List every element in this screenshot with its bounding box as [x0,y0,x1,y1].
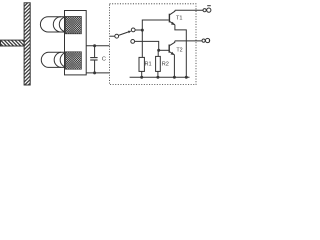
node B junction dot [157,49,160,52]
wire T1 emitter down and right to lower bus [175,25,186,77]
svg-text:T2: T2 [176,48,182,54]
node R1 rail dot [140,76,143,79]
svg-text:C: C [102,57,106,63]
node bottom junction [93,71,96,74]
wire R1 bottom lead [141,71,143,77]
capacitor C plates [90,57,97,59]
rotor vane vertical bar [0,3,114,85]
wire coil tap to box [86,45,109,47]
coil L2 turn arc 1 [54,52,61,67]
bottom rail [130,76,190,78]
node T1 emitter rail dot [185,76,188,79]
node tap junction [93,44,96,47]
transistor T2 emitter [169,52,174,55]
terminal output bottom symbol [206,38,210,42]
wire switch input stub [110,35,115,37]
transistor T1 emitter arrow [171,22,175,25]
wire T2 emitter to rail [173,55,175,77]
resistor R1 [139,57,144,71]
switch blade arrowhead [128,31,132,33]
core rectangle [65,11,87,75]
svg-text:R1: R1 [145,62,152,68]
wire capacitor bottom lead [94,60,96,73]
node T2 emitter rail dot [173,76,176,79]
dashed enclosure box [110,4,197,85]
terminal output bottom circle [202,39,205,42]
coil L2 winding body [41,52,81,67]
coil L1 turn arc 1 [53,17,61,32]
wire T2 collector to bottom terminal [175,40,202,42]
transistor T2 base bar [168,45,170,53]
node R2 rail dot [156,76,159,79]
wire capacitor top lead [94,46,96,58]
rotor vane horizontal arm [0,40,32,46]
wire switch to node A [135,29,142,31]
transistor T2 collector [169,41,175,46]
transistor T1 collector [169,10,175,15]
terminal circle input 2 [131,40,135,44]
svg-text:R2: R2 [162,62,169,68]
terminal output top symbol [207,6,211,13]
transistor T2 emitter arrow [171,52,175,55]
terminal output top circle [203,9,206,12]
wire node B to T2 base [159,49,169,51]
transistor T1 base bar [168,14,170,23]
transistor T1 emitter [169,21,175,24]
svg-text:T1: T1 [176,16,183,22]
wire R2 bottom lead [157,71,159,77]
wire T1 collector to top terminal [175,9,203,11]
node A junction dot [141,29,144,32]
wire terminal2 to node B [135,41,159,50]
wire vertical bus node A to R1 and T1 base [142,20,169,57]
resistor R2 [156,56,161,71]
coil L1 winding body [40,17,81,32]
coil L1 turn arc 2 [59,17,67,32]
switch fixed contact circle [131,28,135,32]
wire coil bottom to box [86,72,109,74]
coil L2 turn arc 2 [60,52,67,67]
wire R2 top lead [157,50,159,56]
coil L2 core cross-hatch [30,52,100,69]
coil L1 core cross-hatch [31,17,101,34]
switch blade [119,32,130,36]
switch moving contact circle [115,34,119,38]
